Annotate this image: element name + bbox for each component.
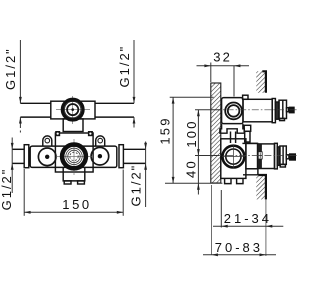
left ear tab [43, 136, 52, 146]
right bolt [88, 131, 93, 136]
right ear tab [96, 136, 105, 146]
arrowheads side view [172, 64, 273, 256]
center dot [71, 108, 74, 111]
dim G1/2 upper-left line [19, 40, 21, 103]
cartridge dark left band [258, 144, 262, 168]
dim 159 line [172, 97, 174, 183]
arrows lower-right G1/2 [144, 143, 147, 149]
dim G1/2 upper-right line [133, 40, 135, 103]
main cylinder [243, 99, 272, 122]
flange lower [275, 143, 278, 169]
thin circle [65, 101, 81, 117]
right pipe stub [123, 148, 145, 150]
left pipe stub [12, 148, 24, 150]
inner thin circle a [66, 148, 82, 164]
interconnect pipe between bodies [231, 125, 251, 143]
ring lower (dark) [277, 147, 280, 165]
upper wall hatch patch [256, 71, 266, 93]
ext plate-left down [211, 185, 213, 255]
ext plate-right down [220, 190, 222, 228]
svg-text:100: 100 [184, 119, 199, 147]
dim 100 bottom ext [195, 155, 219, 157]
lower centerline [214, 155, 298, 157]
svg-text:150: 150 [62, 197, 92, 212]
lower assembly [12, 133, 145, 184]
mounting plate with hatch [211, 83, 221, 183]
dim 32 ext right (pipe axis) [233, 66, 235, 97]
horizontal bar body [30, 146, 117, 167]
center block [55, 133, 93, 172]
holder right part [246, 143, 258, 168]
svg-text:21-34: 21-34 [224, 211, 272, 226]
lower port circles [222, 145, 245, 169]
svg-text:70-83: 70-83 [215, 240, 263, 255]
ext wall face down [265, 199, 267, 256]
bottom ledge under holder [243, 169, 258, 175]
arrows 21-34 [221, 225, 227, 228]
dim 100/40 line [197, 110, 199, 184]
wall face line bottom [259, 175, 266, 199]
right ear hole [98, 138, 103, 143]
lower wall hatch patch [256, 175, 266, 199]
holder shelf top [242, 142, 257, 144]
neck between upper body and lower block [63, 119, 83, 132]
stem lower [286, 155, 289, 159]
flange [272, 99, 275, 123]
arrows 70-83 [212, 253, 218, 256]
port block [222, 98, 243, 124]
disc bottom tab [280, 118, 285, 120]
lower thermostat circle group [56, 139, 92, 175]
dim 150 extension right [122, 170, 124, 216]
upper body foot bracket [220, 124, 244, 134]
dim 70-83 line [203, 254, 276, 256]
inner dashed circle [70, 152, 78, 160]
upper port circles [225, 103, 242, 120]
arrows 150 [24, 211, 30, 214]
arrows 159 [172, 97, 175, 103]
inner thin circle b [68, 150, 80, 162]
dim 40 bottom arrow shaft [197, 183, 199, 194]
middle ring [67, 104, 78, 115]
small top step [243, 95, 248, 99]
outer dark ring [62, 99, 83, 120]
wall face line top [262, 71, 266, 93]
svg-text:G1/2": G1/2" [0, 168, 14, 211]
upper centerline [214, 109, 298, 111]
svg-text:G1/2": G1/2" [129, 164, 144, 207]
ring (dark) [275, 102, 279, 119]
dim G1/2 lower-left line [11, 138, 13, 150]
dim 150 extension left [23, 169, 25, 216]
svg-text:159: 159 [158, 116, 173, 144]
svg-text:G1/2": G1/2" [117, 45, 132, 88]
cartridge cylinder [258, 144, 275, 169]
block lower part sides [63, 167, 85, 181]
arrows 32 [204, 64, 210, 67]
dim 21-34 line [213, 225, 283, 227]
svg-text:40: 40 [183, 159, 198, 178]
arrowheads front view [11, 97, 147, 214]
top bolts on block [55, 131, 93, 136]
dim 100 top ext [195, 109, 222, 111]
disc lower [280, 146, 286, 164]
arrows lower-left G1/2 [11, 143, 14, 149]
lower knob (black) [289, 153, 296, 160]
left ear hole [45, 138, 50, 143]
upper volume-control circle group [56, 96, 90, 124]
left foot [64, 181, 71, 184]
upper knob (black) [289, 107, 295, 114]
upper pipe right segment [95, 102, 134, 104]
disc bottom tab lower [280, 164, 285, 167]
dim 159 top ext [170, 96, 214, 98]
outer dark ring [62, 145, 86, 169]
ear holes [45, 138, 102, 143]
end disc [279, 100, 287, 118]
dim 159/40 bottom ext [165, 182, 222, 184]
cross in lower port [222, 156, 245, 158]
dim G1/2 lower-right line [145, 142, 147, 150]
center cross upper [56, 109, 90, 111]
right foot [78, 181, 85, 184]
arrows 100 [197, 110, 200, 116]
lower left screw circle [38, 148, 56, 166]
stem [287, 108, 289, 112]
upper valve body rect [51, 101, 95, 119]
dim 32 ext left (plate) [210, 63, 212, 83]
svg-text:G1/2": G1/2" [3, 47, 18, 90]
lower right screw circle [91, 147, 109, 165]
right end cap [119, 145, 123, 168]
lower foot [225, 178, 243, 183]
arrow 40 bottom [197, 183, 200, 189]
left end cap [24, 145, 29, 168]
arrows upper-left G1/2 [19, 97, 22, 103]
dim 32 line [197, 65, 250, 67]
upper pipe left segment [20, 102, 51, 104]
main block [221, 139, 246, 179]
svg-text:32: 32 [213, 50, 232, 65]
step blocks right of interconnect [244, 125, 251, 131]
left bolt [55, 131, 60, 136]
dim 150 line [24, 211, 123, 213]
center cross lower [56, 155, 92, 157]
arrows upper-right G1/2 [133, 97, 136, 103]
